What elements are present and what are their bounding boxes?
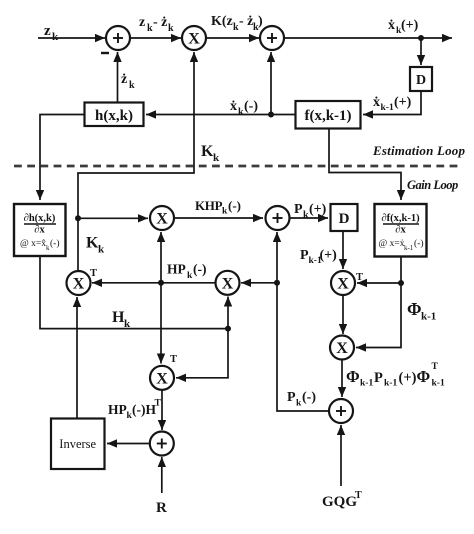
svg-text:Gain Loop: Gain Loop [407,178,458,192]
summer S5 [150,432,174,456]
junction on P_k(-) wire [274,280,280,286]
svg-text:(+): (+) [320,248,338,263]
summer S1 (z_k minus zdot_k) [106,26,130,50]
svg-text:k-1: k-1 [381,103,394,113]
svg-text:(+): (+) [309,202,327,217]
node label H_k [112,309,131,330]
svg-text:D: D [416,73,426,88]
svg-text:k-1: k-1 [432,379,445,389]
junction on xdot_k(+) line [418,35,424,41]
node label KHP_k(-) [195,198,241,217]
node label HP_k(-) [167,262,207,282]
summer S2 (state update) [260,26,284,50]
svg-text:(-): (-) [244,99,258,114]
wire P junction to X4 [241,282,277,284]
svg-text:T: T [155,399,162,409]
summer S4 [329,399,353,423]
wire S5 left to Inverse [107,443,150,445]
svg-text:Φ: Φ [346,367,360,386]
junction on H_k wire [225,326,231,332]
svg-text:Φ: Φ [407,299,422,319]
wire X2 to summer S3 [174,217,263,219]
svg-text:T: T [356,272,363,283]
wire XT3 down to S5 [161,390,163,430]
delay block D1 [410,67,432,91]
svg-text:X: X [222,275,234,292]
node label K(z_k - zdot_k) [211,14,263,33]
svg-text:- ż: - ż [153,15,167,30]
wire H junction down and left to XT3 [176,329,228,378]
svg-text:P: P [287,390,296,405]
wire S2 to output xdot_k(+) [284,37,452,39]
svg-text:f(x,k-1): f(x,k-1) [304,108,351,124]
node label xdot_k(+) [388,18,419,36]
wire S1 to multiplier X1 [130,37,181,39]
multiplier X2 (KHP) [150,206,174,230]
svg-text:∂x: ∂x [395,225,406,236]
svg-text:∂f(x,k-1): ∂f(x,k-1) [381,213,420,224]
multiplier XT2 (times Phi transpose) [331,271,355,295]
multiplier X4 (H times P) [216,271,240,295]
svg-text:k: k [52,31,59,43]
svg-text:P: P [374,370,383,386]
svg-text:HP: HP [108,402,127,417]
node label xdot_k(-) [230,99,258,118]
junction on HP_k(-) wire [158,280,164,286]
node label xdot_k-1(+) [373,95,412,113]
svg-text:k: k [124,318,131,330]
wire f(x,k-1) down and right to df/dx block [329,129,401,201]
svg-text:∂x: ∂x [34,225,45,236]
summer S3 [266,206,290,230]
wire z_k input to summer S1 [38,37,105,39]
svg-text:Φ: Φ [417,367,431,386]
svg-text:(-): (-) [50,238,60,249]
svg-text:(-): (-) [302,390,316,405]
svg-text:T: T [90,268,97,279]
svg-text:(+): (+) [401,18,419,33]
svg-text:k: k [168,23,174,34]
svg-text:T: T [355,490,362,501]
node label P_k(-) [287,390,316,409]
label Estimation Loop [372,143,466,158]
svg-text:h(x,k): h(x,k) [95,108,133,124]
svg-text:R: R [156,500,167,516]
block dh/dx [14,204,66,256]
node label zdot_k [121,72,135,91]
node label GQG^T [322,490,362,510]
node label Phi_k-1 [407,299,436,323]
wire X6 down to S4 [341,360,343,398]
svg-text:X: X [156,211,168,228]
svg-text:k-1: k-1 [404,244,414,252]
svg-text:(+): (+) [394,95,412,110]
svg-text:z: z [139,15,145,30]
svg-text:∂h(x,k): ∂h(x,k) [24,213,56,224]
svg-text:(-): (-) [414,238,424,249]
wire S3 to delay D2 [290,217,329,219]
svg-text:k: k [129,80,135,91]
svg-text:(-): (-) [228,198,241,213]
node label z_k - zdot_k [139,15,174,34]
wire XT2 down to X6 [342,295,344,334]
block df/dx [375,204,427,257]
svg-text:@ x=ẋ: @ x=ẋ [379,239,405,249]
multiplier XT3 (times H transpose) [150,366,174,390]
wire K_k from XT1 up and right to X1 [78,52,194,270]
svg-text:(+): (+) [399,370,417,386]
wire D1 down and left to f(x,k-1) [363,91,421,115]
svg-text:K(z: K(z [211,14,233,29]
wire H junction up to X4 [227,297,229,329]
node label K_k upper [201,143,220,164]
svg-text:T: T [170,354,177,365]
wire HP junction up to X2 [160,232,162,283]
svg-text:X: X [73,276,85,293]
svg-text:(-)H: (-)H [132,402,156,417]
junction on Phi wire [398,280,404,286]
svg-text:(-): (-) [193,262,207,277]
wire f(x,k-1) to h(x,k) : xdot_k(-) [146,114,296,116]
wire GQG^T up to S4 [340,425,342,486]
svg-text:Estimation Loop: Estimation Loop [372,143,466,158]
wire junction up to S2 [270,52,272,115]
block Inverse [51,419,105,470]
wire h(x,k) left and down to dh/dx block [40,115,85,201]
wire S4 left and up to S3 : P_k(-) feedback [277,232,329,411]
svg-text:): ) [258,14,263,29]
wire X1 to summer S2 [206,37,259,39]
svg-text:k: k [213,152,220,164]
svg-text:k: k [98,244,105,256]
multiplier X1 (K_k gain) [182,26,206,50]
delay block D2 [331,204,358,231]
node z_k input label [44,23,59,43]
label Gain Loop [407,178,458,192]
wire Inverse up to XT1 [76,297,78,419]
junction on xdot_k(-) line [268,112,274,118]
node label HP_k(-)H^T [108,399,162,422]
svg-text:- ż: - ż [239,14,253,29]
svg-text:X: X [156,370,168,387]
wire D2 down to XT2 [342,231,344,269]
svg-text:ẋ: ẋ [230,99,237,114]
wire h(x,k) up to S1 : zdot_k [117,52,119,103]
multiplier X6 (times Phi) [330,336,354,360]
svg-text:X: X [188,31,200,48]
minus sign on S1 [101,52,109,54]
block f(x,k-1) [296,101,361,129]
junction on K_k wire [75,215,81,221]
svg-text:P: P [294,202,303,217]
node label Phi_k-1 P_k-1(+) Phi_k-1^T [346,362,445,389]
multiplier XT1 (times inverse, transpose) [67,271,91,295]
node label P_k-1(+) [300,248,337,266]
svg-text:T: T [432,362,439,372]
wire junction down to delay D1 [420,38,422,65]
svg-text:k-1: k-1 [421,311,436,323]
svg-text:X: X [336,340,348,357]
svg-text:GQG: GQG [322,494,357,510]
wire df/dx down to X6 with branch to XT2 : Phi_k-1 [356,257,401,348]
wire R up to S5 [161,457,163,493]
svg-text:Inverse: Inverse [59,437,96,451]
svg-text:z: z [44,23,51,39]
wire X4 output left to XT1 : HP_k(-) [92,282,216,284]
node label R [156,500,167,516]
wire dh/dx down and right to H junction : H_k [40,256,228,329]
wire Phi junction to XT2 [357,282,401,284]
svg-text:@ x=x̂: @ x=x̂ [20,238,46,249]
svg-text:KHP: KHP [195,198,223,213]
svg-text:k-1: k-1 [360,379,373,389]
svg-text:k-1: k-1 [384,379,397,389]
block h(x,k) [85,103,144,127]
wire HP junction down to XT3 [160,283,162,364]
node label K_k lower [86,235,105,256]
wire K_k junction to X2 [78,217,148,219]
svg-text:ẋ: ẋ [373,95,380,110]
svg-text:X: X [337,276,349,293]
dashed separator line [14,165,459,168]
svg-text:ż: ż [121,72,127,87]
svg-text:HP: HP [167,262,186,277]
svg-text:D: D [339,211,350,227]
node label P_k(+) [294,202,327,221]
svg-text:ẋ: ẋ [388,18,395,33]
